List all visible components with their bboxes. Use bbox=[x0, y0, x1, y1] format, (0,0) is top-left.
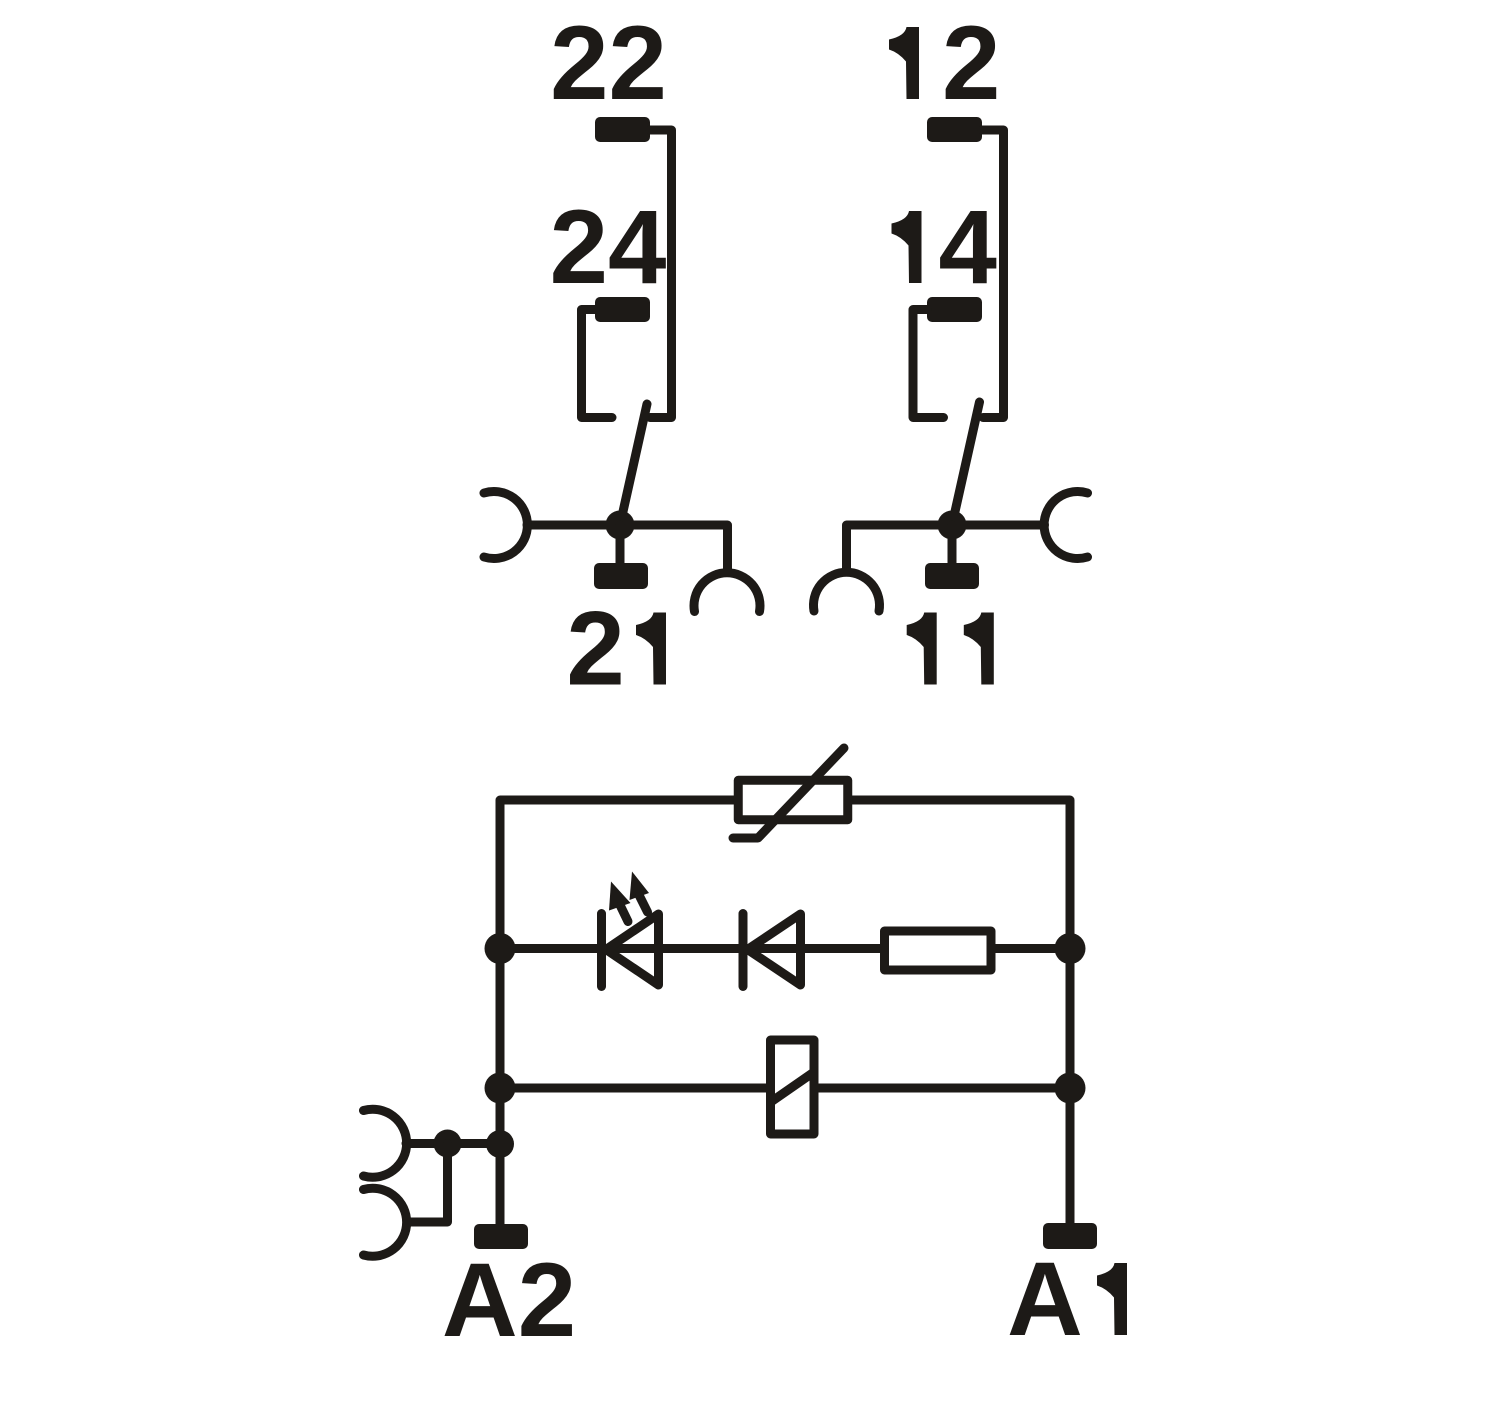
relay coil diagonal bbox=[772, 1072, 815, 1102]
node 11 junction bbox=[938, 511, 967, 540]
varistor strike line bbox=[733, 748, 844, 838]
wire from 22 down to fixed contact bbox=[650, 130, 672, 418]
left rail A2 bbox=[500, 800, 734, 1224]
terminal A1 bbox=[1043, 1223, 1097, 1249]
wire from 14 down (NO contact) bbox=[913, 310, 944, 418]
terminal 12 bbox=[927, 117, 982, 142]
svg-text:24: 24 bbox=[550, 189, 667, 306]
terminal 14 bbox=[927, 297, 982, 322]
plug socket arc left of 21 bbox=[484, 492, 527, 559]
svg-text:A: A bbox=[1007, 1241, 1083, 1358]
right rail A1 bbox=[852, 800, 1070, 1223]
junction dot left coil bbox=[485, 1073, 516, 1104]
label 14 bbox=[892, 211, 922, 283]
svg-text:2: 2 bbox=[566, 591, 624, 708]
LED arrow 2 shaft bbox=[640, 896, 648, 912]
stub from node to terminal 11 bbox=[948, 525, 957, 563]
junction dot left middle bbox=[485, 933, 516, 964]
plug socket arc right of 11 bbox=[1044, 492, 1087, 559]
relay coil body bbox=[771, 1040, 815, 1134]
terminal 22 bbox=[595, 117, 650, 142]
wire common 21 horizontal bbox=[527, 525, 728, 571]
upper plug socket arc at A2 bbox=[364, 1109, 407, 1177]
svg-text:2: 2 bbox=[942, 5, 1000, 122]
coil branch wire right bbox=[818, 1084, 1070, 1093]
svg-text:4: 4 bbox=[939, 189, 997, 306]
LED arrow 2 head bbox=[630, 872, 650, 901]
LED arrow 1 shaft bbox=[621, 906, 629, 922]
LED arrow 1 head bbox=[609, 882, 631, 911]
stub from node to terminal 21 bbox=[616, 525, 625, 563]
wire from 12 down to fixed contact bbox=[982, 130, 1004, 418]
wire common 11 horizontal bbox=[847, 525, 1045, 571]
switch arm (contact 11-12) bbox=[952, 402, 980, 525]
lower plug socket arc at A2 bbox=[364, 1188, 407, 1256]
switch arm (contact 21-22) bbox=[620, 404, 647, 525]
node 21 junction bbox=[606, 511, 635, 540]
LED triangle bbox=[606, 914, 659, 985]
wire from 24 down (NO contact) bbox=[582, 310, 613, 418]
terminal 24 bbox=[595, 297, 650, 322]
coil branch wire left bbox=[500, 1084, 766, 1093]
plug claw below 11 left bbox=[813, 572, 879, 611]
label 11 bbox=[907, 613, 937, 685]
diode triangle bbox=[748, 914, 801, 985]
svg-text:22: 22 bbox=[550, 5, 667, 122]
junction dot right middle bbox=[1055, 933, 1086, 964]
middle branch wire right bbox=[995, 944, 1070, 953]
plug claw below 21 right bbox=[694, 573, 760, 612]
label 12 bbox=[889, 27, 919, 99]
svg-text:A2: A2 bbox=[442, 1242, 576, 1359]
LED cathode bar bbox=[597, 914, 606, 987]
resistor bbox=[885, 931, 992, 970]
wire from lower socket up to junction bbox=[407, 1144, 448, 1223]
terminal 21 bbox=[594, 563, 648, 589]
junction dot at rail A2 bbox=[486, 1130, 514, 1158]
diode cathode bar bbox=[739, 914, 748, 987]
junction dot right coil bbox=[1055, 1073, 1086, 1104]
middle branch wire left bbox=[500, 944, 880, 953]
wire from upper socket to rail bbox=[406, 1139, 500, 1148]
terminal A2 bbox=[474, 1224, 528, 1249]
junction dot left of rail bbox=[434, 1130, 462, 1158]
varistor body bbox=[738, 780, 848, 820]
terminal 11 bbox=[925, 563, 979, 589]
